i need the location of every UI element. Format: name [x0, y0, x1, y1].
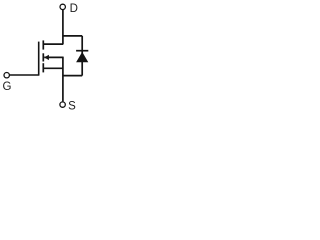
wire: drain vertical from D terminal to drain stub: [62, 10, 64, 44]
diode D1 cathode bar: [76, 50, 88, 52]
mosfet Q1 channel segment (source side): [42, 63, 44, 72]
wire: drain stub to MOSFET channel: [43, 43, 63, 45]
mosfet Q1 channel segment (drain side): [42, 40, 44, 49]
mosfet Q1 gate bar: [38, 42, 40, 75]
terminal G (open circle): [4, 73, 9, 78]
wire: source vertical rail down to S terminal: [62, 57, 64, 102]
wire: gate lead from G terminal to gate bar: [10, 74, 40, 76]
wire: source stub from channel to source rail: [43, 67, 63, 69]
diode D1 anode triangle (filled, pointing up): [76, 52, 88, 62]
wire: drain branch to body diode cathode: [63, 35, 82, 37]
svg-text:S: S: [68, 100, 76, 112]
mosfet Q1 body arrow (points to channel): [44, 55, 49, 60]
terminal D (open circle): [60, 4, 65, 9]
diode D1 vertical lead: [81, 36, 83, 76]
terminal S (open circle): [60, 102, 65, 107]
mosfet Q1 channel segment (body, middle): [42, 53, 44, 61]
svg-text:D: D: [70, 3, 78, 15]
wire: source branch to body diode anode: [63, 75, 82, 77]
wire: body stub from arrow to source rail: [44, 56, 63, 58]
svg-text:G: G: [3, 81, 12, 93]
